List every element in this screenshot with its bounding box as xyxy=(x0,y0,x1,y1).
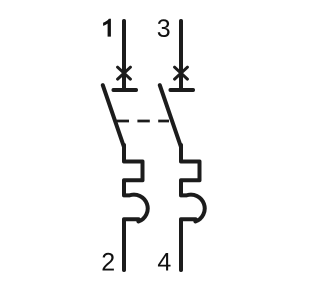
switch lever (moving contact) pole 2 xyxy=(160,85,181,147)
dashed mechanical link between pole levers xyxy=(117,120,169,123)
switch lever (moving contact) pole 1 xyxy=(103,85,124,147)
svg-text:3: 3 xyxy=(157,15,171,43)
thermal overload step + magnetic trip coil pole 2 xyxy=(181,145,205,270)
fixed contact bar pole 2 xyxy=(171,88,194,92)
svg-text:2: 2 xyxy=(101,248,115,276)
svg-text:4: 4 xyxy=(157,248,171,276)
wire: pole 2 top terminal line xyxy=(179,21,183,90)
fixed contact bar pole 1 xyxy=(114,88,137,92)
terminal label 1 xyxy=(103,19,111,37)
thermal overload step + magnetic trip coil pole 1 xyxy=(124,145,148,270)
breaker function cross X on pole 2 terminal xyxy=(175,67,188,79)
wire: pole 1 top terminal line xyxy=(122,21,126,90)
breaker function cross X on pole 1 terminal xyxy=(118,67,131,79)
